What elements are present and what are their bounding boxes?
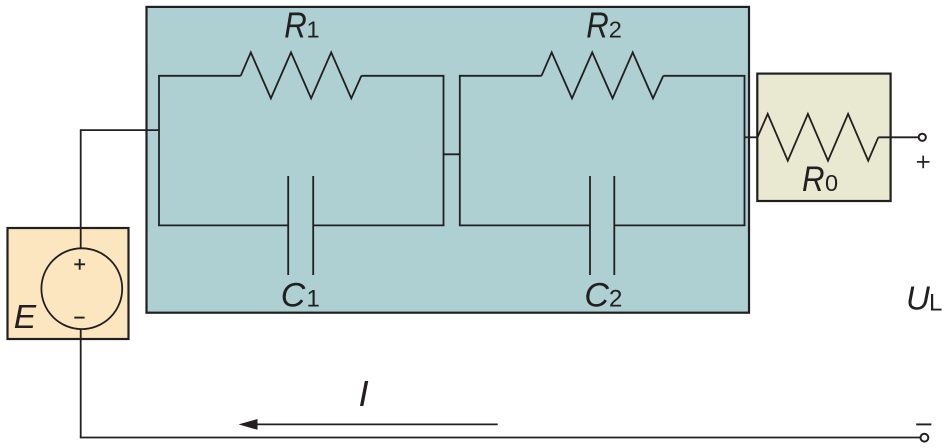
- node loop2 right vertical wire: [744, 76, 746, 226]
- wire loop1 top-right: [361, 75, 444, 77]
- resistor R1: [241, 52, 362, 98]
- wire loop2 top-right: [663, 75, 745, 77]
- svg-text:C: C: [281, 277, 306, 315]
- wire E bottom vertical: [80, 329, 82, 438]
- wire bottom return: [80, 437, 921, 439]
- capacitor C1: [288, 176, 313, 275]
- svg-text:0: 0: [825, 170, 838, 196]
- + output terminal: [919, 134, 926, 141]
- wire junction loop1 to loop2: [444, 153, 461, 155]
- wire network to R0: [745, 136, 758, 138]
- svg-text:I: I: [359, 373, 369, 414]
- svg-text:1: 1: [307, 286, 320, 313]
- svg-text:E: E: [14, 299, 37, 336]
- wire loop1 top-left: [158, 75, 241, 77]
- svg-text:U: U: [906, 279, 930, 316]
- node loop2 left vertical wire: [459, 76, 461, 226]
- wire E to network (top horizontal): [81, 129, 159, 131]
- svg-text:2: 2: [609, 17, 622, 43]
- voltage source circle: [41, 248, 122, 329]
- + sign at output: [917, 156, 930, 169]
- svg-text:C: C: [584, 277, 609, 315]
- node loop1 right vertical wire: [443, 76, 445, 226]
- svg-text:L: L: [929, 290, 942, 317]
- resistor R0 box: [757, 74, 890, 201]
- capacitor C2: [590, 176, 614, 275]
- wire R0 to + terminal: [878, 136, 918, 138]
- svg-text:R: R: [586, 5, 609, 46]
- - sign at output: [916, 423, 931, 425]
- wire loop1 bottom-left: [158, 224, 288, 226]
- resistor R2: [542, 52, 664, 98]
- wire loop2 bottom-right: [614, 224, 745, 226]
- battery model network box: [147, 7, 750, 313]
- voltage source E box: [8, 228, 129, 339]
- wire loop1 bottom-right: [313, 224, 444, 226]
- wire E top vertical: [80, 129, 82, 248]
- resistor R0: [758, 114, 879, 161]
- svg-text:2: 2: [609, 286, 622, 313]
- wire loop2 top-left: [459, 75, 542, 77]
- node loop 1 left vertical wire: [158, 76, 160, 226]
- svg-text:R: R: [284, 5, 307, 46]
- current arrow I: [239, 419, 498, 430]
- + sign in source: [74, 259, 85, 270]
- - output terminal: [921, 434, 929, 442]
- svg-text:R: R: [802, 160, 825, 199]
- wire loop2 bottom-left: [459, 224, 590, 226]
- svg-text:1: 1: [307, 17, 320, 43]
- - sign in source: [74, 317, 84, 319]
